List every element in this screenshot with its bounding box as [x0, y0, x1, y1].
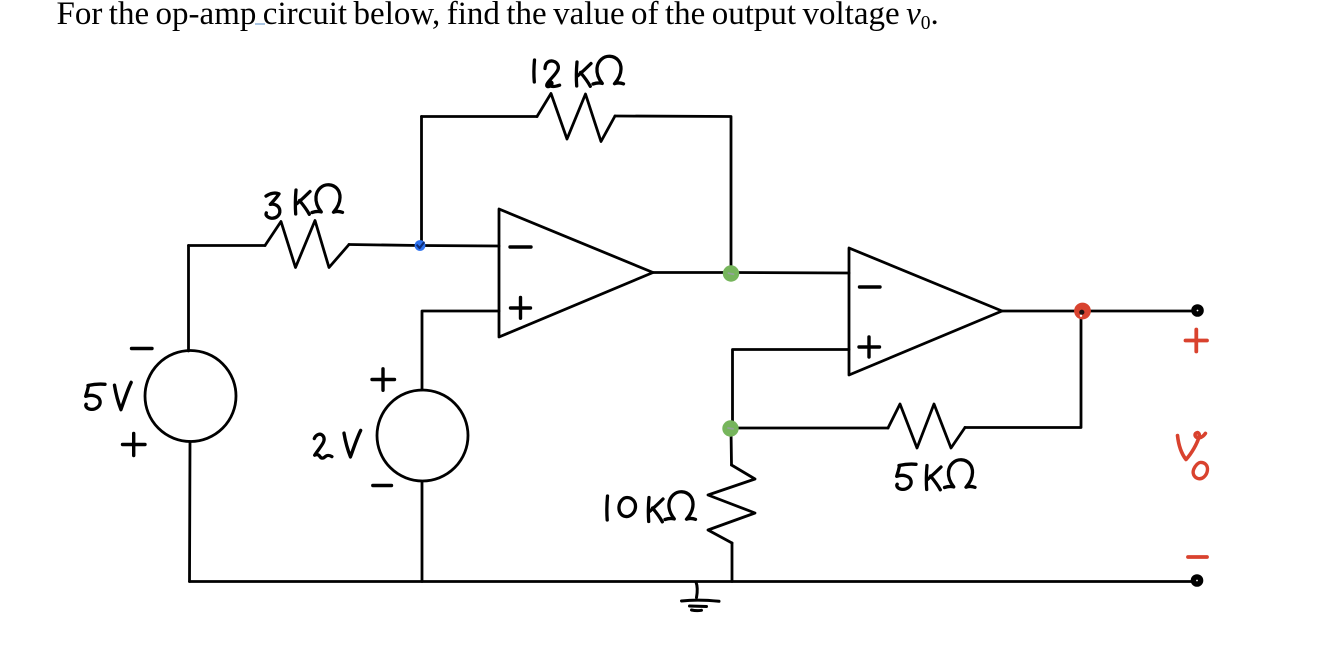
label: R 5K value "5 KΩ" [897, 460, 975, 490]
node B green junction dot (U1 output) [723, 265, 739, 281]
wire: R 10K down to bottom rail [731, 543, 734, 582]
wire: bottom rail [190, 580, 1193, 583]
op-amp U2 triangle [849, 248, 1002, 375]
resistor R 3K zigzag [265, 221, 349, 268]
op-amp U1 plus pin label [511, 298, 531, 319]
op-amp U1 minus pin label [510, 245, 531, 248]
wire: feedback left vertical from node A up [420, 117, 423, 246]
wire: R 3K to node A to op-amp U1 inverting input [349, 245, 499, 247]
label: V2 plus polarity [372, 369, 395, 391]
label: output + polarity [1186, 330, 1208, 352]
wire: left vertical from corner down to 5V source top [187, 246, 190, 352]
wire: 5V source bottom down to bottom rail [188, 442, 191, 582]
terminal: + output [1194, 307, 1201, 314]
op-amp U2 minus pin label [860, 285, 881, 288]
wire: node C to R 5K [730, 427, 888, 430]
wire: op-amp U1 output to node B to op-amp U2 inverting input [653, 271, 849, 274]
label: R 10K value "10 KΩ" [607, 492, 696, 522]
node C green junction dot [722, 420, 738, 436]
wire: R 5K right to vertical up to node D [965, 311, 1081, 428]
resistor R 12K zigzag [537, 94, 615, 142]
label: V1 minus polarity [132, 347, 153, 350]
label: output voltage v_o [1178, 433, 1206, 460]
terminal: - output [1193, 577, 1200, 584]
wire: node C down to R 10K [730, 429, 733, 465]
wire: op-amp U2 plus input left and down to node C [733, 350, 850, 429]
op-amp U1 triangle [499, 209, 653, 337]
label: source V1 value "5V" [86, 383, 131, 410]
op-amp U2 plus pin label [859, 337, 880, 357]
voltage source V2 2V circle [377, 390, 468, 481]
ground symbol [682, 582, 720, 611]
label: source V2 value "2V" [314, 431, 360, 459]
wire: feedback top horizontal to R 12K [422, 115, 538, 118]
label: output - polarity [1188, 555, 1207, 559]
resistor R 5K zigzag [888, 404, 965, 448]
wire: op-amp U2 output through node D to + terminal [1002, 310, 1193, 313]
resistor R 10K vertical zigzag [708, 465, 755, 543]
wire: 2V source bottom down to bottom rail [421, 482, 424, 582]
wire: top-left horizontal from source corner to R 3K [189, 244, 266, 247]
node A blue junction dot [415, 240, 426, 251]
node D red junction dot (U2 output) [1074, 303, 1091, 320]
wire: R 12K to feedback right vertical down to node B [615, 116, 731, 273]
label: R 12K value "12 KΩ" [534, 56, 624, 86]
label: V2 minus polarity [373, 484, 392, 487]
wire: op-amp U1 plus input from 2V source [422, 311, 499, 390]
voltage source V1 5V circle [145, 351, 236, 442]
label: R 3K value "3 KΩ" [266, 185, 343, 218]
label: V1 plus polarity [123, 434, 146, 456]
